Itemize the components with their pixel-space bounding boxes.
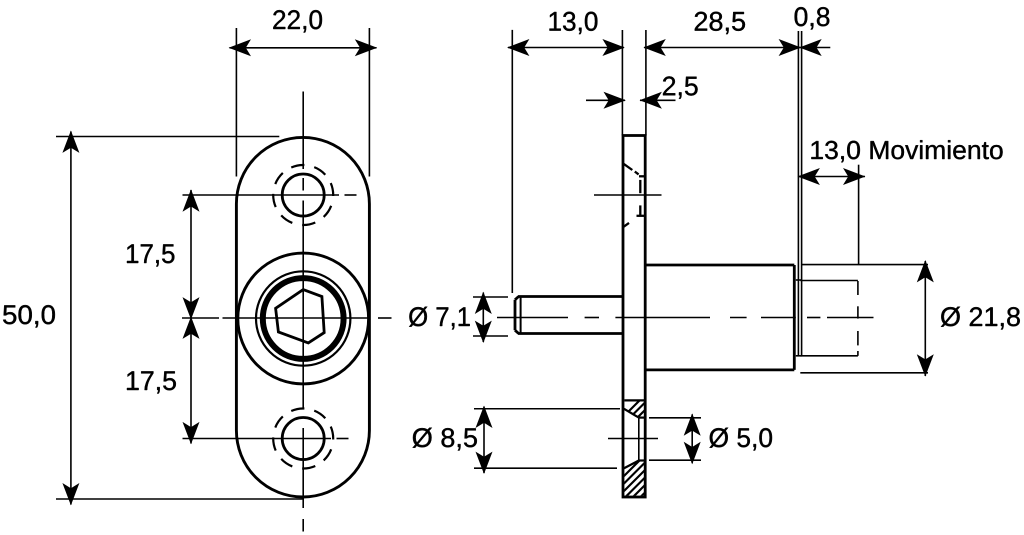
central boss outer circle [238,253,369,384]
countersink cone [624,409,639,418]
0,8 extension lines / step edges [798,31,801,356]
dimension Ø 8,5 [474,407,620,473]
bottom screw hole [282,418,324,460]
hex socket [276,290,325,343]
boss horizontal centerline [182,317,392,319]
dimension 22,0 [230,28,377,177]
sectioned bottom hole [624,400,645,468]
dimension 13,0 [508,30,624,293]
bottom hole horizontal centerline [183,438,349,440]
dimension 28,5 [622,30,800,136]
dimension 13,0 Movimiento [798,165,865,265]
break line [624,399,644,401]
plunger end step [796,280,802,356]
dimension 17,5 lower [183,317,200,339]
dimension 17,5 upper [190,190,192,444]
dimension Ø 7,1 [473,293,508,342]
dimension 50,0 [56,132,304,505]
dimension Ø 5,0 [649,414,701,463]
top hole countersink dashed circle [273,165,333,225]
top hole horizontal centerline [183,194,357,196]
spindle shaft [515,297,623,334]
shaft chamfer line [520,297,522,334]
dimension 0,8 [799,47,830,49]
dimension Ø 21,8 [800,261,928,376]
cylinder face circle [256,271,350,365]
hole bore edges [639,417,645,419]
mounting plate stadium outline [236,137,369,497]
dimension 2,5 [586,99,676,101]
main axis centerline [497,317,874,319]
bottom hole axis centerline (side) [608,438,658,440]
flange plate (side) [623,136,645,498]
lock cylinder body [645,265,794,370]
top hole axis centerline (side) [594,194,662,196]
hidden countersink (top hole, side view) [624,164,645,227]
vertical centerline of plate [302,92,304,532]
top screw hole [282,174,324,216]
retracted plunger dashed end edge [857,281,859,356]
thick socket ring [263,278,344,359]
bottom hole countersink dashed circle [273,409,333,469]
retracted plunger outline: top edge [800,281,858,356]
